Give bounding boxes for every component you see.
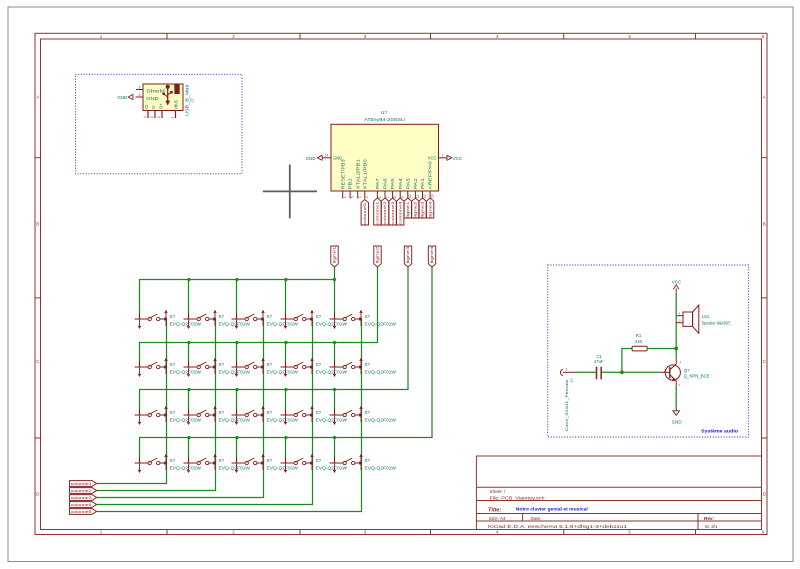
switch S17 EVQ-Q2F01W (184, 454, 252, 473)
global label colonne5 (U2 pin) (361, 200, 368, 226)
switch S20 EVQ-Q2F01W (330, 454, 398, 473)
svg-text:S?: S? (316, 362, 322, 367)
svg-text:EVQ-Q2F01W: EVQ-Q2F01W (219, 369, 252, 374)
note text Systeme audio (701, 428, 738, 434)
svg-text:4: 4 (343, 196, 347, 198)
svg-text:S?: S? (365, 458, 371, 463)
power GND (U2) (306, 155, 322, 161)
svg-text:EVQ-Q2F01W: EVQ-Q2F01W (219, 465, 252, 470)
global label ligne4 (matrix) (428, 246, 435, 267)
svg-text:EVQ-Q2F01W: EVQ-Q2F01W (365, 321, 398, 326)
svg-text:3: 3 (364, 530, 367, 535)
svg-text:2: 2 (232, 34, 235, 39)
svg-text:GND: GND (306, 156, 316, 161)
svg-text:1: 1 (565, 366, 568, 371)
svg-text:XTAL1/PB0: XTAL1/PB0 (362, 158, 367, 189)
junction node collector (674, 347, 678, 351)
svg-text:B: B (763, 222, 766, 227)
capacitor C1 47uF (594, 354, 604, 379)
svg-text:VCC: VCC (428, 156, 437, 161)
svg-text:R1: R1 (636, 333, 642, 338)
svg-text:4: 4 (143, 116, 147, 118)
global label ligne1 (U2 pin) (404, 198, 411, 218)
svg-text:colonne1: colonne1 (376, 202, 380, 225)
wire ligne2 row (140, 267, 378, 367)
svg-text:3: 3 (358, 196, 362, 198)
svg-text:S?: S? (219, 314, 225, 319)
svg-text:Q_NPN_BCE: Q_NPN_BCE (684, 374, 710, 379)
svg-text:S?: S? (316, 410, 322, 415)
connector J1 USB_B_Mini (136, 84, 195, 118)
svg-text:GND: GND (117, 95, 127, 100)
power GND (audio) (672, 411, 683, 425)
svg-text:S?: S? (219, 362, 225, 367)
svg-text:6: 6 (762, 34, 765, 39)
svg-text:D: D (763, 492, 767, 497)
svg-text:ATtiny84-20SSU: ATtiny84-20SSU (364, 117, 405, 122)
svg-text:12: 12 (423, 194, 427, 198)
svg-text:EVQ-Q2F01W: EVQ-Q2F01W (316, 321, 349, 326)
svg-text:3: 3 (678, 383, 680, 387)
ic U2 ATtiny84-20SSU (323, 110, 447, 199)
svg-text:Speaker 8&#937;: Speaker 8&#937; (702, 321, 732, 326)
switch S14 EVQ-Q2F01W (281, 406, 349, 425)
power VCC (audio) (672, 280, 682, 293)
svg-text:1: 1 (441, 154, 443, 158)
wire ligne4 row (140, 267, 433, 463)
svg-text:S?: S? (219, 458, 225, 463)
svg-text:EVQ-Q2F01W: EVQ-Q2F01W (219, 321, 252, 326)
svg-text:ligne4: ligne4 (430, 246, 434, 263)
wire emitter to GND (675, 387, 677, 411)
global label colonne4 (U2 pin) (397, 198, 404, 225)
svg-text:PA5: PA5 (390, 177, 395, 189)
svg-text:ligne2: ligne2 (376, 246, 380, 263)
svg-text:10: 10 (408, 194, 412, 198)
svg-text:1: 1 (100, 34, 103, 39)
svg-text:2: 2 (157, 116, 161, 118)
svg-text:RESET/PB3: RESET/PB3 (340, 158, 345, 189)
svg-text:Id: 3/1: Id: 3/1 (705, 524, 718, 529)
svg-text:Size: A4: Size: A4 (489, 516, 506, 521)
switch S13 EVQ-Q2F01W (232, 406, 300, 425)
svg-text:EVQ-Q2F01W: EVQ-Q2F01W (316, 465, 349, 470)
svg-text:EVQ-Q2F01W: EVQ-Q2F01W (365, 369, 398, 374)
svg-text:S?: S? (170, 458, 176, 463)
wire ligne3 row (140, 267, 409, 415)
power GND (USB) (117, 94, 133, 100)
svg-text:ligne4: ligne4 (428, 202, 432, 218)
svg-text:EVQ-Q2F01W: EVQ-Q2F01W (267, 465, 300, 470)
svg-text:LS1: LS1 (702, 314, 710, 319)
svg-text:2: 2 (232, 530, 235, 535)
svg-text:4: 4 (496, 530, 499, 535)
svg-text:13: 13 (431, 194, 435, 198)
global label colonne1 (matrix) (70, 481, 97, 487)
svg-text:S?: S? (170, 362, 176, 367)
note frame audio zone (548, 265, 749, 437)
svg-text:Shield: Shield (146, 89, 165, 94)
svg-text:S?: S? (267, 362, 273, 367)
svg-text:ligne3: ligne3 (406, 246, 410, 263)
svg-text:VCC: VCC (672, 280, 682, 285)
svg-text:8: 8 (393, 196, 397, 198)
global label ligne1 (matrix) (331, 246, 338, 267)
switch S15 EVQ-Q2F01W (330, 406, 398, 425)
svg-text:7: 7 (385, 196, 389, 198)
switch S6 EVQ-Q2F01W (135, 358, 203, 377)
svg-text:2: 2 (365, 196, 369, 198)
svg-text:J?: J? (569, 378, 574, 383)
wire J2 to C1 (577, 371, 596, 373)
junctions ligne1 (187, 278, 336, 281)
global label colonne3 (U2 pin) (389, 198, 396, 225)
svg-text:D+: D+ (159, 103, 164, 109)
switch S18 EVQ-Q2F01W (232, 454, 300, 473)
svg-text:2: 2 (679, 319, 681, 323)
svg-text:Q?: Q? (684, 368, 690, 373)
svg-text:EVQ-Q2F01W: EVQ-Q2F01W (316, 417, 349, 422)
svg-text:A: A (763, 95, 766, 100)
svg-text:6: 6 (762, 530, 765, 535)
note frame USB zone (76, 74, 243, 174)
svg-text:240: 240 (635, 339, 643, 344)
svg-text:J?: J? (190, 98, 195, 103)
svg-text:PA1: PA1 (420, 177, 425, 189)
switch S5 EVQ-Q2F01W (330, 310, 398, 329)
switch S16 EVQ-Q2F01W (135, 454, 203, 473)
svg-text:5: 5 (628, 34, 631, 39)
svg-text:Notre clavier genial et musica: Notre clavier genial et musical (516, 507, 588, 512)
svg-text:5: 5 (628, 530, 631, 535)
svg-text:colonne2: colonne2 (71, 489, 92, 493)
svg-text:Système audio: Système audio (701, 428, 738, 434)
global label colonne5 (matrix) (70, 509, 97, 515)
cursor crosshair (263, 165, 317, 219)
switch S4 EVQ-Q2F01W (281, 310, 349, 329)
svg-text:S?: S? (219, 410, 225, 415)
svg-text:EVQ-Q2F01W: EVQ-Q2F01W (365, 465, 398, 470)
global label ligne2 (matrix) (374, 246, 381, 267)
svg-text:AREF/PA0: AREF/PA0 (428, 160, 433, 189)
svg-text:colonne4: colonne4 (71, 503, 92, 507)
svg-text:PA3: PA3 (405, 177, 410, 189)
wire colonne3 column (97, 319, 264, 498)
svg-text:S?: S? (365, 410, 371, 415)
svg-text:S?: S? (170, 314, 176, 319)
global label colonne1 (U2 pin) (374, 198, 381, 225)
svg-text:KiCad E.D.A. eeschema 5.1.9+d: KiCad E.D.A. eeschema 5.1.9+dfsg1-3+deb1… (488, 524, 628, 529)
svg-text:colonne3: colonne3 (71, 496, 92, 500)
svg-text:EVQ-Q2F01W: EVQ-Q2F01W (170, 465, 203, 470)
svg-text:colonne2: colonne2 (383, 202, 387, 225)
switch S12 EVQ-Q2F01W (184, 406, 252, 425)
global label ligne3 (matrix) (404, 246, 411, 267)
svg-text:EVQ-Q2F01W: EVQ-Q2F01W (365, 417, 398, 422)
power VCC (U2) (447, 155, 462, 161)
wire C1 to Q1 base (602, 371, 660, 373)
switch S11 EVQ-Q2F01W (135, 406, 203, 425)
svg-text:S?: S? (170, 410, 176, 415)
svg-text:VCC: VCC (453, 156, 462, 161)
global label colonne4 (matrix) (70, 502, 97, 508)
svg-text:EVQ-Q2F01W: EVQ-Q2F01W (267, 417, 300, 422)
switch S1 EVQ-Q2F01W (135, 310, 203, 329)
wire ligne1 row (140, 267, 335, 319)
svg-text:B: B (36, 222, 39, 227)
svg-text:EVQ-Q2F01W: EVQ-Q2F01W (267, 369, 300, 374)
junction node base (620, 370, 624, 374)
svg-text:EVQ-Q2F01W: EVQ-Q2F01W (170, 369, 203, 374)
global label colonne3 (matrix) (70, 495, 97, 501)
switch S2 EVQ-Q2F01W (184, 310, 252, 329)
global label colonne2 (U2 pin) (381, 198, 388, 225)
wire base to R1 (622, 349, 632, 373)
svg-text:A: A (36, 95, 39, 100)
svg-text:S?: S? (365, 362, 371, 367)
wire colonne4 column (97, 319, 313, 505)
switch S7 EVQ-Q2F01W (184, 358, 252, 377)
transistor Q1 NPN (660, 358, 710, 387)
svg-text:14: 14 (325, 154, 329, 158)
svg-text:Date:: Date: (531, 516, 542, 521)
svg-text:EVQ-Q2F01W: EVQ-Q2F01W (267, 321, 300, 326)
svg-text:ligne1: ligne1 (333, 246, 337, 263)
svg-text:Conn_01x01_Female: Conn_01x01_Female (564, 380, 569, 432)
svg-text:3: 3 (364, 34, 367, 39)
svg-text:D: D (36, 492, 40, 497)
svg-text:1: 1 (680, 360, 682, 364)
svg-text:File: PCB_Vianney.sch: File: PCB_Vianney.sch (490, 495, 546, 500)
svg-text:colonne5: colonne5 (71, 510, 92, 514)
svg-text:6: 6 (139, 86, 141, 90)
connector J2 Conn_01x01_Female (560, 366, 577, 431)
svg-text:ligne2: ligne2 (414, 202, 418, 218)
svg-text:1: 1 (679, 312, 681, 316)
svg-text:GND: GND (146, 96, 159, 101)
svg-text:EVQ-Q2F01W: EVQ-Q2F01W (170, 321, 203, 326)
wire colonne5 column (97, 319, 362, 512)
svg-text:U?: U? (381, 110, 387, 116)
svg-text:6: 6 (378, 196, 382, 198)
svg-text:S?: S? (267, 458, 273, 463)
svg-text:colonne3: colonne3 (391, 202, 395, 225)
svg-text:47uF: 47uF (594, 359, 604, 364)
global label ligne3 (U2 pin) (419, 198, 426, 218)
global label ligne4 (U2 pin) (426, 198, 433, 218)
svg-text:C: C (763, 359, 767, 364)
svg-text:1: 1 (171, 116, 175, 118)
svg-text:S?: S? (365, 314, 371, 319)
junctions ligne3 (187, 388, 336, 391)
svg-text:ligne1: ligne1 (406, 202, 410, 218)
svg-text:colonne1: colonne1 (71, 482, 92, 486)
svg-text:S?: S? (267, 410, 273, 415)
svg-text:colonne5: colonne5 (363, 203, 367, 225)
svg-text:5: 5 (139, 93, 141, 97)
switch S10 EVQ-Q2F01W (330, 358, 398, 377)
global label colonne2 (matrix) (70, 488, 97, 494)
speaker LS1 (676, 305, 731, 333)
svg-text:Title:: Title: (488, 507, 501, 513)
svg-text:C: C (36, 359, 40, 364)
svg-text:D-: D- (151, 104, 156, 109)
wire colonne2 column (97, 319, 216, 491)
resistor R1 240 (632, 333, 647, 351)
svg-text:colonne4: colonne4 (398, 202, 402, 225)
svg-text:Rev:: Rev: (704, 516, 714, 521)
wire colonne1 column (97, 319, 167, 484)
switch S3 EVQ-Q2F01W (232, 310, 300, 329)
svg-text:S?: S? (316, 458, 322, 463)
svg-text:PA6: PA6 (383, 177, 388, 189)
wire R1 to collector node (647, 348, 676, 350)
junctions ligne2 (187, 341, 336, 344)
svg-text:EVQ-Q2F01W: EVQ-Q2F01W (170, 417, 203, 422)
svg-text:3: 3 (150, 116, 154, 118)
switch S9 EVQ-Q2F01W (281, 358, 349, 377)
svg-text:1: 1 (100, 530, 103, 535)
svg-text:EVQ-Q2F01W: EVQ-Q2F01W (316, 369, 349, 374)
svg-text:XTAL2/PB1: XTAL2/PB1 (355, 158, 360, 189)
svg-text:PB2: PB2 (348, 177, 353, 189)
svg-text:9: 9 (401, 196, 405, 198)
svg-text:5: 5 (351, 196, 355, 198)
svg-text:PA4: PA4 (398, 177, 403, 189)
global label ligne2 (U2 pin) (412, 198, 419, 218)
svg-text:EVQ-Q2F01W: EVQ-Q2F01W (219, 417, 252, 422)
svg-text:GND: GND (672, 420, 683, 425)
switch S8 EVQ-Q2F01W (232, 358, 300, 377)
svg-text:PA7: PA7 (375, 177, 380, 189)
junctions ligne4 (187, 436, 336, 439)
svg-text:ID: ID (144, 105, 149, 109)
switch S19 EVQ-Q2F01W (281, 454, 349, 473)
svg-text:4: 4 (496, 34, 499, 39)
wire VCC to speaker / collector (675, 293, 677, 359)
svg-text:ligne3: ligne3 (421, 202, 425, 218)
svg-text:S?: S? (316, 314, 322, 319)
svg-text:Sheet: /: Sheet: / (490, 489, 507, 494)
svg-text:PA2: PA2 (413, 177, 418, 189)
svg-text:S?: S? (267, 314, 273, 319)
svg-text:11: 11 (416, 195, 420, 199)
svg-text:VBUS: VBUS (174, 100, 179, 110)
